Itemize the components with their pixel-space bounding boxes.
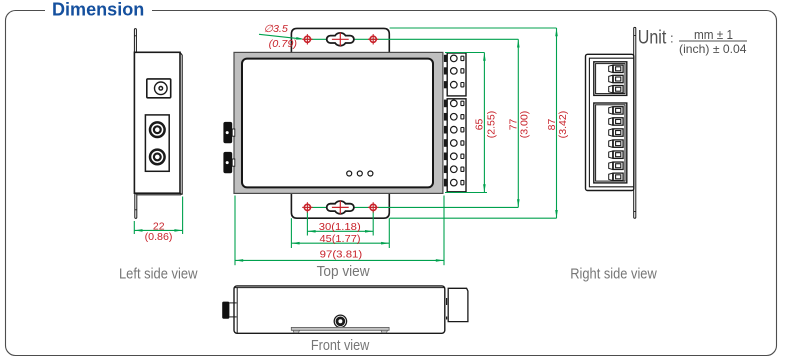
svg-text::: : [670, 31, 674, 46]
svg-text:22: 22 [153, 221, 165, 232]
svg-text:77: 77 [509, 118, 520, 130]
svg-text:Right side view: Right side view [570, 267, 657, 283]
svg-text:65: 65 [475, 118, 486, 130]
svg-text:mm ± 1: mm ± 1 [694, 28, 733, 42]
svg-text:Top view: Top view [317, 264, 370, 280]
svg-text:(inch) ± 0.04: (inch) ± 0.04 [679, 42, 747, 56]
svg-text:97(3.81): 97(3.81) [320, 250, 363, 261]
svg-text:(0.86): (0.86) [145, 232, 173, 243]
svg-text:(3.00): (3.00) [520, 111, 531, 139]
svg-text:Left side view: Left side view [119, 267, 198, 283]
svg-text:Front view: Front view [311, 338, 370, 354]
svg-text:30(1.18): 30(1.18) [319, 222, 361, 233]
svg-text:Dimension: Dimension [52, 0, 144, 20]
svg-text:(2.55): (2.55) [487, 111, 498, 139]
svg-text:(3.42): (3.42) [558, 111, 569, 139]
svg-text:(0.79): (0.79) [269, 39, 297, 50]
svg-text:∅3.5: ∅3.5 [264, 24, 289, 35]
svg-text:Unit: Unit [638, 26, 667, 48]
svg-text:87: 87 [547, 118, 558, 130]
svg-text:45(1.77): 45(1.77) [320, 234, 361, 245]
